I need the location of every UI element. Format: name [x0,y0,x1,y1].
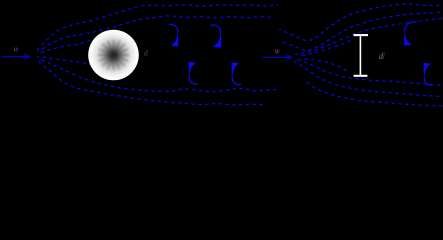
jet outer line U2 [280,12,443,51]
streamline upper-inner [38,16,272,52]
jet diverging line D3 [295,18,443,54]
arrow v (left inflow) [3,53,32,60]
label d (diameter) [379,51,385,61]
streamline lower-hug (ends at sphere) [37,57,92,65]
streamline group (right diagram) [279,4,443,106]
streamline group (left diagram) [37,5,278,105]
streamline upper-hug (ends at sphere) [39,39,93,53]
arrow v (right inflow) [263,54,294,61]
sphere radial streaks [98,40,129,70]
jet near-axis upper D4 (ends near bar top) [298,39,354,57]
jet diverging bottom E1 [296,59,443,86]
jet diverging bottom E3 [304,80,443,106]
label v (velocity, right) [275,45,281,55]
svg-text:v: v [276,46,280,56]
label v (velocity, left) [13,44,19,54]
svg-text:v: v [15,44,19,54]
vortex wake A1 [169,24,178,46]
jet diverging bottom E2 [294,61,443,97]
vortex wake B1 (rotated) [189,62,198,84]
dimension bar d [354,35,369,76]
label d (sphere diameter, faint) [144,48,150,58]
vortex jet top (mirrored) [404,22,417,45]
sphere [88,30,139,81]
svg-text:d: d [380,51,385,61]
jet outer line U1 (converges then diverges over top) [279,4,443,41]
vortex jet bottom (rotated type) [424,63,433,85]
streamline lower-outer [37,60,266,105]
vortex wake A2 [211,25,221,47]
streamline lower-inner [38,59,276,92]
vortex wake B2 (rotated) [232,63,241,85]
streamline upper-outer [37,5,278,50]
jet near-axis lower E4 (to bottom vortex) [300,59,349,73]
